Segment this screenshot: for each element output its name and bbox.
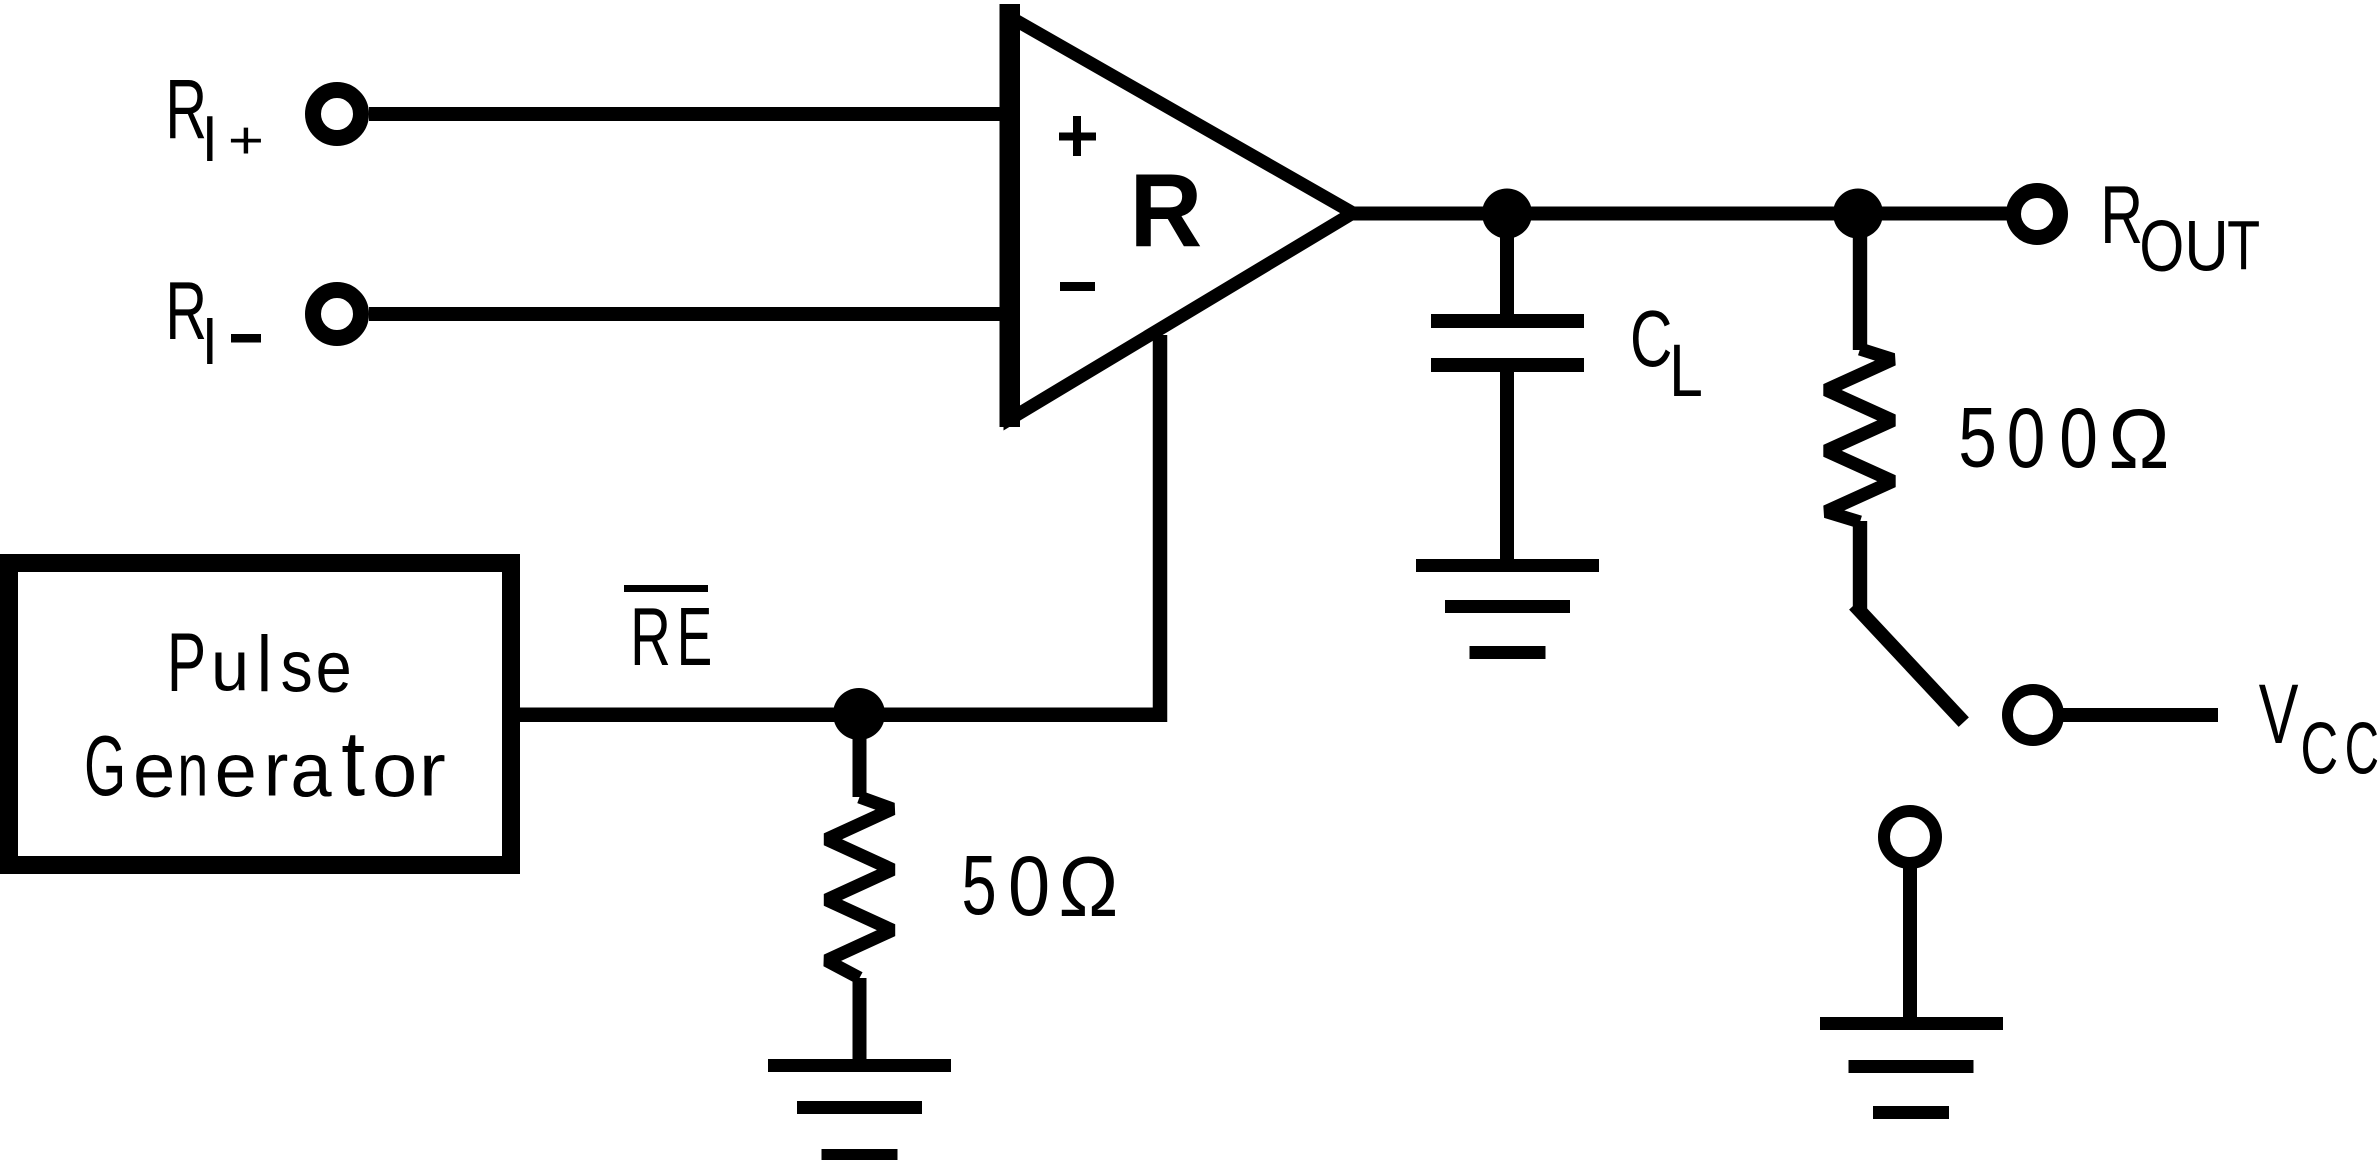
output wire: [1352, 207, 2007, 221]
svg-text:U: U: [2184, 207, 2228, 286]
label Pulse: [167, 617, 352, 709]
junction node (RE): [833, 688, 885, 740]
svg-text:s: s: [281, 625, 313, 707]
junction node (500 branch): [1833, 189, 1883, 239]
svg-text:r: r: [264, 727, 289, 812]
svg-text:R: R: [165, 63, 207, 156]
label ROUT: [2100, 169, 2260, 286]
svg-text:T: T: [2227, 208, 2260, 285]
capacitor CL: [1431, 227, 1584, 561]
RE wire from pulse generator to enable pin: [520, 335, 1160, 715]
svg-text:0: 0: [2059, 392, 2098, 486]
label RI-: [165, 266, 261, 379]
wire RI- input: [369, 307, 1001, 321]
svg-text:R: R: [2100, 169, 2143, 261]
svg-text:e: e: [215, 728, 257, 813]
switch arm: [1859, 610, 1959, 717]
svg-text:e: e: [133, 727, 175, 814]
svg-text:R: R: [630, 590, 671, 682]
svg-text:C: C: [1630, 293, 1672, 383]
terminal RI+: [313, 90, 361, 138]
svg-text:I: I: [202, 103, 218, 176]
svg-text:V: V: [2259, 668, 2299, 761]
svg-text:O: O: [2139, 205, 2184, 286]
ground (CL): [1416, 559, 1599, 659]
svg-text:0: 0: [1008, 839, 1050, 934]
svg-text:5: 5: [961, 838, 996, 932]
ground (switch): [1820, 1017, 2003, 1119]
svg-text:I: I: [202, 304, 218, 379]
label RE with overline: [624, 585, 712, 683]
label CL: [1630, 293, 1703, 412]
svg-text:0: 0: [2007, 392, 2046, 486]
label Generator: [84, 712, 446, 816]
resistor 50: [827, 728, 893, 1061]
resistor 500: [1826, 227, 1893, 611]
wire RI+ input: [369, 107, 1001, 121]
label 500 ohm: [1958, 391, 2169, 486]
svg-text:C: C: [2300, 708, 2338, 790]
ground (50): [768, 1059, 951, 1160]
svg-text:+: +: [228, 111, 264, 170]
terminal ROUT: [2014, 191, 2061, 238]
svg-text:a: a: [290, 728, 331, 813]
label VCC: [2259, 668, 2378, 790]
svg-text:5: 5: [1958, 391, 1997, 485]
svg-text:C: C: [2345, 708, 2378, 790]
svg-text:P: P: [167, 617, 206, 709]
junction node (CL branch): [1482, 189, 1532, 239]
pulse generator box: [9, 563, 511, 865]
svg-text:R: R: [1129, 152, 1202, 269]
svg-text:l: l: [257, 620, 272, 709]
svg-text:u: u: [211, 625, 249, 706]
wire to VCC: [2059, 708, 2218, 722]
svg-text:L: L: [1669, 330, 1703, 412]
svg-text:E: E: [677, 590, 712, 683]
svg-text:Ω: Ω: [1058, 839, 1118, 935]
switch pole to VCC: [2008, 690, 2059, 741]
wire throw to ground: [1903, 863, 1917, 1019]
svg-text:o: o: [372, 727, 417, 813]
terminal RI-: [313, 290, 361, 338]
svg-text:e: e: [316, 626, 352, 707]
op-amp U1 receiver R: [1000, 4, 1354, 427]
switch throw (ground side): [1884, 811, 1936, 863]
svg-text:Ω: Ω: [2108, 392, 2169, 486]
label 50 ohm: [961, 838, 1118, 934]
svg-text:R: R: [165, 266, 207, 358]
svg-text:r: r: [419, 729, 446, 812]
svg-text:t: t: [341, 712, 365, 816]
label RI+: [165, 63, 264, 175]
svg-text:G: G: [84, 718, 126, 814]
svg-text:n: n: [177, 728, 208, 812]
